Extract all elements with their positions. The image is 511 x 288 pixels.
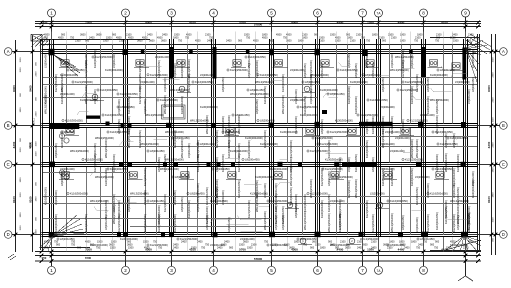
svg-text:KL16(300x550): KL16(300x550) — [365, 140, 369, 158]
column 6D — [315, 232, 321, 238]
grid bubble B left — [4, 122, 15, 130]
svg-text:L5(200x400): L5(200x400) — [200, 73, 215, 77]
svg-text:L5(200x400): L5(200x400) — [455, 80, 470, 84]
svg-text:1800: 1800 — [20, 212, 22, 218]
svg-text:L5(200x400): L5(200x400) — [401, 119, 405, 134]
svg-text:KL21(250x500): KL21(250x500) — [390, 116, 394, 134]
svg-text:4500: 4500 — [262, 37, 268, 40]
svg-text:WKL3(250x600): WKL3(250x600) — [237, 115, 241, 134]
svg-text:D: D — [502, 232, 505, 237]
detail tag 23 — [177, 86, 191, 92]
svg-text:KL21(250x500): KL21(250x500) — [347, 180, 351, 198]
detail tag 20 — [329, 172, 344, 180]
svg-text:1: 1 — [50, 11, 53, 16]
detail tag 18 — [226, 172, 241, 180]
svg-text:2400: 2400 — [371, 247, 377, 250]
svg-text:4500: 4500 — [468, 241, 474, 244]
svg-text:WKL3(250x600): WKL3(250x600) — [215, 179, 219, 198]
svg-text:KL16(300x550): KL16(300x550) — [120, 92, 138, 96]
svg-text:4500: 4500 — [362, 244, 368, 247]
svg-text:1500: 1500 — [97, 241, 103, 244]
column 3C-b — [174, 162, 178, 167]
svg-text:1800: 1800 — [400, 40, 406, 43]
svg-text:KL21(250x500): KL21(250x500) — [371, 214, 375, 232]
svg-text:8400: 8400 — [487, 85, 491, 92]
svg-text:KL16(300x550): KL16(300x550) — [65, 119, 83, 123]
beam along grid 7A — [377, 39, 381, 237]
svg-text:C: C — [502, 162, 505, 167]
svg-text:KL16(300x550): KL16(300x550) — [289, 187, 293, 205]
svg-text:2100: 2100 — [371, 241, 377, 244]
svg-text:L5(200x400): L5(200x400) — [320, 63, 324, 78]
column 5A — [269, 49, 274, 56]
svg-text:KL30(300x600): KL30(300x600) — [200, 105, 218, 109]
secondary beam x401.5 — [401, 45, 403, 235]
svg-text:L8(200x450): L8(200x450) — [54, 143, 58, 158]
svg-text:KL21(250x500): KL21(250x500) — [75, 80, 93, 84]
svg-text:KL16(300x550): KL16(300x550) — [410, 168, 414, 186]
svg-text:900: 900 — [44, 247, 49, 250]
svg-text:3600: 3600 — [161, 40, 167, 43]
svg-text:L8(200x450): L8(200x450) — [196, 197, 200, 212]
svg-text:900: 900 — [310, 247, 315, 250]
svg-text:KL21(250x500): KL21(250x500) — [263, 130, 267, 148]
svg-text:KL16(300x550): KL16(300x550) — [84, 214, 88, 232]
svg-text:KL30(300x600): KL30(300x600) — [430, 73, 448, 77]
detail tag 4 — [231, 60, 246, 68]
svg-text:1500: 1500 — [272, 244, 278, 247]
svg-text:900: 900 — [435, 241, 440, 244]
grid line 7 — [362, 23, 364, 262]
svg-text:7: 7 — [361, 11, 364, 16]
svg-text:8400: 8400 — [12, 85, 16, 92]
svg-text:L5(200x400): L5(200x400) — [163, 77, 167, 92]
svg-text:KL30(300x600): KL30(300x600) — [335, 119, 353, 123]
svg-text:L8(200x450): L8(200x450) — [347, 53, 351, 68]
svg-text:750: 750 — [153, 241, 158, 244]
svg-text:L5(200x400): L5(200x400) — [471, 171, 475, 186]
secondary beam y84.5 — [43, 84, 477, 86]
svg-text:KL16(300x550): KL16(300x550) — [309, 74, 313, 92]
svg-text:1500: 1500 — [20, 192, 22, 198]
svg-text:KL21(250x500): KL21(250x500) — [143, 168, 147, 186]
svg-text:KL21(250x500): KL21(250x500) — [335, 175, 353, 179]
svg-text:3: 3 — [170, 11, 173, 16]
small filled mark x324 — [322, 110, 327, 114]
svg-text:1800: 1800 — [400, 34, 406, 37]
svg-text:1800: 1800 — [492, 192, 494, 198]
svg-text:KL21(250x500): KL21(250x500) — [221, 154, 225, 172]
grid line C — [16, 164, 496, 166]
wall beam mid — [86, 116, 100, 119]
svg-text:C: C — [7, 162, 10, 167]
svg-text:L5(200x400): L5(200x400) — [365, 119, 369, 134]
grid bubble 7A bottom — [375, 261, 383, 274]
column 2B-b — [128, 123, 132, 128]
svg-text:KL21(250x500): KL21(250x500) — [117, 214, 121, 232]
paired tags below C — [59, 170, 69, 180]
grid bubble 4 top — [210, 9, 218, 23]
svg-text:4: 4 — [212, 268, 215, 273]
svg-text:L8(200x450): L8(200x450) — [281, 215, 285, 230]
svg-text:4100: 4100 — [441, 21, 448, 25]
column C-x336 — [334, 162, 339, 167]
svg-text:750: 750 — [201, 247, 206, 250]
svg-text:L8(200x450): L8(200x450) — [127, 197, 131, 212]
svg-text:KL21(250x500): KL21(250x500) — [452, 214, 456, 232]
svg-text:L8(200x450): L8(200x450) — [381, 77, 385, 92]
svg-text:KL30(300x600): KL30(300x600) — [157, 214, 161, 232]
svg-text:WKL3(250x600): WKL3(250x600) — [263, 211, 267, 230]
svg-text:1800: 1800 — [298, 40, 304, 43]
svg-text:L8(200x450): L8(200x450) — [452, 133, 456, 148]
svg-text:L5(200x400): L5(200x400) — [54, 190, 58, 205]
svg-text:KL16(300x550): KL16(300x550) — [430, 192, 448, 196]
svg-text:WKL3(250x600): WKL3(250x600) — [444, 153, 448, 172]
svg-text:4500: 4500 — [144, 247, 150, 250]
svg-text:WKL3(250x600): WKL3(250x600) — [365, 49, 369, 68]
svg-text:L8(200x450): L8(200x450) — [70, 68, 85, 72]
svg-text:RKL2: RKL2 — [29, 142, 32, 149]
svg-text:WKL3(250x600): WKL3(250x600) — [430, 98, 449, 102]
svg-text:6: 6 — [316, 268, 319, 273]
dimension line right outer — [494, 34, 498, 255]
svg-text:KL16(300x550): KL16(300x550) — [456, 187, 460, 205]
secondary beam x112.5 — [112, 45, 114, 235]
svg-text:L5(200x400): L5(200x400) — [196, 183, 200, 198]
secondary beam x66.5 — [66, 45, 68, 235]
dimension text band bottom — [44, 241, 474, 250]
svg-text:WKL3(250x600): WKL3(250x600) — [112, 205, 116, 224]
secondary beam y97.5 — [43, 97, 317, 99]
svg-text:900: 900 — [77, 247, 82, 250]
svg-text:L5(200x400): L5(200x400) — [290, 68, 305, 72]
svg-text:4: 4 — [212, 11, 215, 16]
svg-text:WKL3(250x600): WKL3(250x600) — [415, 139, 419, 158]
svg-text:2100: 2100 — [319, 40, 325, 43]
svg-text:900: 900 — [238, 40, 243, 43]
svg-text:2400: 2400 — [226, 40, 232, 43]
svg-text:750: 750 — [71, 244, 76, 247]
grid bubble 5 bottom — [268, 261, 276, 274]
svg-text:3600: 3600 — [96, 34, 102, 37]
column 1C — [49, 162, 55, 168]
svg-text:KL21(250x500): KL21(250x500) — [315, 136, 333, 140]
column A-x142 — [141, 50, 145, 54]
svg-text:KL21(250x500): KL21(250x500) — [405, 80, 423, 84]
svg-text:KL30(300x600): KL30(300x600) — [350, 80, 368, 84]
svg-text:L8(200x450): L8(200x450) — [401, 215, 405, 230]
svg-text:L5(200x400): L5(200x400) — [187, 143, 191, 158]
svg-text:4400: 4400 — [337, 21, 344, 25]
svg-text:2: 2 — [124, 268, 127, 273]
svg-text:L8(200x450): L8(200x450) — [371, 157, 375, 172]
grid bubble 6 bottom — [314, 261, 322, 274]
grid bubble 7 top — [359, 9, 367, 23]
svg-text:2400: 2400 — [492, 142, 494, 148]
grid bubble C right — [496, 161, 508, 169]
svg-text:4500: 4500 — [128, 37, 134, 40]
grid line 5 — [271, 23, 273, 262]
grid bubble D right — [496, 231, 508, 239]
svg-text:6: 6 — [316, 11, 319, 16]
secondary beam y226.5 — [130, 226, 271, 228]
building edge left — [41, 39, 43, 250]
svg-text:750: 750 — [205, 244, 210, 247]
column C-x218 — [217, 162, 221, 167]
svg-text:D: D — [7, 232, 10, 237]
svg-text:L5(200x400): L5(200x400) — [138, 77, 142, 92]
grid bubble C left — [4, 161, 15, 169]
svg-text:WKL3(250x600): WKL3(250x600) — [60, 73, 64, 92]
svg-text:KL30(300x600): KL30(300x600) — [410, 86, 414, 104]
column A-x411 — [409, 50, 413, 54]
ramp outline bottom-right — [443, 237, 481, 250]
svg-text:KL16(300x550): KL16(300x550) — [327, 194, 331, 212]
svg-text:7200: 7200 — [85, 21, 92, 25]
column 5B — [269, 123, 274, 128]
secondary beam x389.5 — [389, 45, 391, 235]
paired tags below B — [59, 133, 69, 143]
svg-text:KL21(250x500): KL21(250x500) — [360, 113, 378, 117]
svg-text:KL30(300x600): KL30(300x600) — [435, 154, 439, 172]
svg-text:2400: 2400 — [181, 241, 187, 244]
svg-text:900: 900 — [335, 247, 340, 250]
detail tag 22 — [434, 172, 449, 180]
svg-text:KL16(300x550): KL16(300x550) — [415, 187, 419, 205]
secondary beam x336.5 — [336, 45, 338, 235]
detail tag 5 — [273, 60, 288, 68]
grid bubble A right — [496, 48, 508, 56]
svg-text:750: 750 — [434, 247, 439, 250]
svg-text:KL21(250x500): KL21(250x500) — [471, 50, 475, 68]
svg-text:3600: 3600 — [286, 40, 292, 43]
secondary beam x156.5 — [156, 45, 158, 235]
svg-text:KL21(250x500): KL21(250x500) — [160, 98, 178, 102]
grid bubble 2 bottom — [122, 261, 130, 274]
dimension line right inner — [487, 34, 493, 255]
column 2C-b — [128, 162, 132, 167]
svg-text:4200: 4200 — [12, 141, 16, 148]
svg-text:900: 900 — [56, 244, 61, 247]
svg-text:L8(200x450): L8(200x450) — [471, 77, 475, 92]
svg-text:1500: 1500 — [20, 57, 22, 63]
svg-text:KL30(300x600): KL30(300x600) — [221, 116, 225, 134]
svg-text:KL21(250x500): KL21(250x500) — [401, 60, 405, 78]
svg-text:WKL3(250x600): WKL3(250x600) — [467, 213, 471, 232]
svg-text:KL21(250x500): KL21(250x500) — [163, 194, 167, 212]
shear wall grid4 top — [213, 47, 217, 79]
beam along grid 4 — [212, 39, 216, 237]
beam along grid D — [42, 233, 479, 237]
svg-text:750: 750 — [246, 37, 251, 40]
svg-text:750: 750 — [414, 40, 419, 43]
svg-text:KL30(300x600): KL30(300x600) — [255, 175, 273, 179]
svg-text:57800: 57800 — [254, 23, 263, 27]
svg-text:7200: 7200 — [85, 248, 92, 252]
svg-text:KL21(250x500): KL21(250x500) — [196, 140, 200, 158]
svg-text:WKL3(250x600): WKL3(250x600) — [84, 85, 88, 104]
column 2D — [124, 233, 128, 238]
svg-text:2400: 2400 — [217, 247, 223, 250]
svg-text:KL30(300x600): KL30(300x600) — [245, 136, 263, 140]
secondary beam y146.5 — [43, 146, 477, 148]
svg-text:1500: 1500 — [103, 40, 109, 43]
svg-text:B: B — [502, 123, 505, 128]
grid line 2 — [125, 23, 127, 262]
column 2C-a — [119, 162, 123, 167]
svg-text:WKL3(250x600): WKL3(250x600) — [281, 95, 285, 114]
svg-text:1500: 1500 — [20, 67, 22, 73]
svg-text:2400: 2400 — [162, 34, 168, 37]
column A-x191 — [189, 50, 193, 54]
svg-text:L8(200x450): L8(200x450) — [150, 149, 165, 153]
grid line 4 — [213, 23, 215, 262]
svg-text:2400: 2400 — [404, 247, 410, 250]
svg-text:2100: 2100 — [391, 37, 397, 40]
beam along grid 5 — [270, 39, 274, 237]
svg-text:900: 900 — [382, 40, 387, 43]
svg-text:KL30(300x600): KL30(300x600) — [270, 167, 288, 171]
svg-text:KL30(300x600): KL30(300x600) — [93, 50, 97, 68]
svg-text:2400: 2400 — [492, 72, 494, 78]
svg-text:L8(200x450): L8(200x450) — [255, 99, 259, 114]
witness lines bottom band — [52, 237, 466, 252]
svg-text:KL21(250x500): KL21(250x500) — [95, 55, 113, 59]
svg-text:KL21(250x500): KL21(250x500) — [300, 105, 318, 109]
beam along grid 3 — [170, 39, 174, 237]
svg-text:RKL1: RKL1 — [33, 117, 36, 124]
svg-text:L5(200x400): L5(200x400) — [380, 105, 395, 109]
dimension line left inner — [29, 36, 35, 252]
svg-text:2400: 2400 — [197, 241, 203, 244]
beam along grid 9 — [464, 39, 468, 237]
svg-text:KL21(250x500): KL21(250x500) — [93, 154, 97, 172]
secondary beam x86.5 — [86, 45, 88, 235]
svg-text:5700: 5700 — [239, 248, 246, 252]
svg-text:2100: 2100 — [387, 247, 393, 250]
grid line B — [16, 125, 496, 127]
svg-text:WKL3(250x600): WKL3(250x600) — [410, 139, 414, 158]
svg-text:L5(200x400): L5(200x400) — [155, 55, 170, 59]
grid line 8 — [423, 23, 425, 262]
column 4D — [213, 232, 218, 237]
svg-text:KL21(250x500): KL21(250x500) — [320, 168, 324, 186]
svg-text:KL16(300x550): KL16(300x550) — [104, 200, 108, 218]
svg-text:750: 750 — [96, 247, 101, 250]
svg-text:KL16(300x550): KL16(300x550) — [163, 154, 167, 172]
svg-text:KL21(250x500): KL21(250x500) — [173, 214, 177, 232]
svg-text:L8(200x450): L8(200x450) — [426, 77, 430, 92]
svg-text:1: 1 — [50, 268, 53, 273]
svg-text:L8(200x450): L8(200x450) — [143, 190, 147, 205]
svg-text:3600: 3600 — [345, 247, 351, 250]
svg-text:L5(200x400): L5(200x400) — [44, 53, 48, 68]
svg-text:KL16(300x550): KL16(300x550) — [303, 96, 307, 114]
svg-text:KL30(300x600): KL30(300x600) — [60, 130, 64, 148]
svg-text:1500: 1500 — [20, 225, 22, 231]
svg-text:5700: 5700 — [239, 21, 246, 25]
grid line 6 — [317, 23, 319, 262]
svg-text:2400: 2400 — [89, 37, 95, 40]
svg-text:KL30(300x600): KL30(300x600) — [452, 168, 456, 186]
svg-text:950: 950 — [43, 21, 48, 25]
leader lines — [77, 62, 468, 231]
dimension text band left — [20, 57, 38, 235]
svg-text:9: 9 — [464, 11, 467, 16]
column 1D — [49, 232, 55, 238]
svg-text:WKL3(250x600): WKL3(250x600) — [138, 59, 142, 78]
column 9D — [461, 232, 467, 238]
grid line 7A — [378, 23, 380, 262]
dimension line bottom inner — [35, 248, 481, 254]
svg-text:KL16(300x550): KL16(300x550) — [444, 206, 448, 224]
svg-text:L5(200x400): L5(200x400) — [93, 89, 97, 104]
svg-text:1500: 1500 — [239, 244, 245, 247]
svg-text:WKL3(250x600): WKL3(250x600) — [70, 149, 89, 153]
svg-text:8: 8 — [422, 268, 425, 273]
svg-text:750: 750 — [178, 40, 183, 43]
svg-text:1500: 1500 — [36, 141, 38, 147]
column 6B — [315, 122, 320, 127]
dimension line top inner — [35, 23, 481, 29]
svg-text:WKL3(250x600): WKL3(250x600) — [255, 193, 259, 212]
svg-text:2400: 2400 — [36, 111, 38, 117]
svg-text:KL30(300x600): KL30(300x600) — [255, 60, 259, 78]
svg-text:KL30(300x600): KL30(300x600) — [281, 74, 285, 92]
svg-text:L8(200x450): L8(200x450) — [180, 197, 184, 212]
detail tag 24 — [302, 86, 316, 92]
svg-text:4500: 4500 — [44, 241, 50, 244]
wall beam B left — [50, 123, 79, 129]
svg-text:L5(200x400): L5(200x400) — [263, 183, 267, 198]
svg-text:L8(200x450): L8(200x450) — [354, 63, 358, 78]
svg-text:KL21(250x500): KL21(250x500) — [426, 214, 430, 232]
svg-text:750: 750 — [158, 247, 163, 250]
svg-text:L5(200x400): L5(200x400) — [415, 175, 430, 179]
svg-text:KL16(300x550): KL16(300x550) — [205, 187, 209, 205]
svg-text:L8(200x450): L8(200x450) — [330, 92, 345, 96]
detail tag 19 — [272, 172, 287, 180]
detail tag 17 — [179, 172, 194, 180]
svg-text:1800: 1800 — [20, 177, 22, 183]
svg-text:L5(200x400): L5(200x400) — [173, 63, 177, 78]
svg-text:KL21(250x500): KL21(250x500) — [215, 130, 219, 148]
svg-text:1500: 1500 — [128, 247, 134, 250]
svg-text:1500: 1500 — [247, 247, 253, 250]
column 5D — [269, 232, 275, 238]
svg-text:750: 750 — [366, 40, 371, 43]
svg-text:2400: 2400 — [173, 247, 179, 250]
svg-text:1500: 1500 — [492, 57, 494, 63]
svg-text:4500: 4500 — [450, 241, 456, 244]
svg-text:KL30(300x600): KL30(300x600) — [173, 130, 177, 148]
svg-text:2100: 2100 — [75, 40, 81, 43]
column 2A — [123, 49, 128, 55]
svg-text:5: 5 — [270, 268, 273, 273]
detail tag 11 — [224, 128, 239, 136]
svg-text:L8(200x450): L8(200x450) — [173, 190, 177, 205]
detail tag 12 — [304, 128, 319, 136]
secondary beam x410.5 — [410, 45, 412, 235]
secondary beam x255.5 — [255, 45, 257, 235]
detail tag 3 — [175, 60, 190, 68]
svg-text:WKL3(250x600): WKL3(250x600) — [160, 167, 179, 171]
svg-text:KL30(300x600): KL30(300x600) — [180, 96, 184, 114]
svg-text:1500: 1500 — [191, 247, 197, 250]
svg-text:950: 950 — [42, 256, 47, 260]
svg-text:KL16(300x550): KL16(300x550) — [138, 130, 142, 148]
